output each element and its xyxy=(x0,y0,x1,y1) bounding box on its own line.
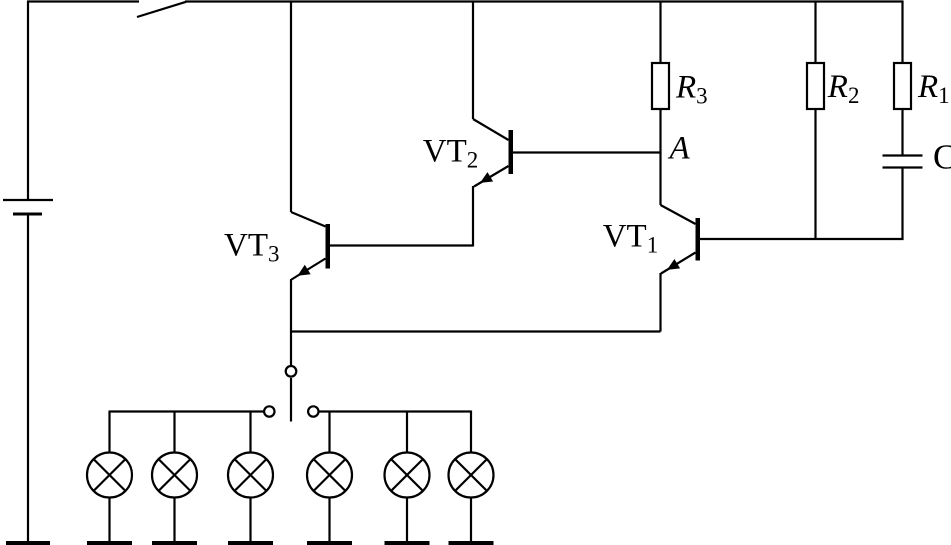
svg-text:A: A xyxy=(668,131,691,167)
lamp EL4 xyxy=(307,411,352,545)
lamp EL6 xyxy=(449,411,494,545)
transistor Q VT2 base bar xyxy=(509,130,514,174)
wire left lamp bus xyxy=(110,410,264,412)
wire VT2 collector vertical xyxy=(472,1,474,119)
wire VT1 emitter vertical xyxy=(659,273,661,332)
battery GB long plate xyxy=(3,199,53,201)
capacitor C bottom plate xyxy=(883,166,923,168)
wire VT2 emitter diagonal xyxy=(474,166,509,187)
wire top left segment xyxy=(27,0,139,2)
wire VT3 collector diagonal xyxy=(291,212,326,227)
wire VT3 base lead xyxy=(330,244,473,246)
wire left vertical upper xyxy=(27,1,29,200)
wire VT3 emitter diagonal xyxy=(292,259,326,280)
switch S2 left contact xyxy=(264,406,274,416)
arrow VT1 emitter xyxy=(667,259,680,270)
wire capacitor bottom down to base line xyxy=(901,168,903,241)
resistor R2 body xyxy=(807,63,824,109)
transistor Q VT3 base bar xyxy=(326,224,331,269)
resistor R1 body xyxy=(894,63,911,109)
wire VT2 base lead to node A xyxy=(513,151,661,153)
svg-text:VT1: VT1 xyxy=(603,219,659,258)
wire VT3 collector vertical xyxy=(290,1,292,212)
wire R2 branch top xyxy=(814,1,816,63)
svg-text:C: C xyxy=(933,138,951,177)
svg-text:VT3: VT3 xyxy=(224,228,280,267)
wire R1 branch top xyxy=(901,1,903,63)
lamp EL3 xyxy=(228,411,273,545)
switch S2 pole contact xyxy=(286,366,297,377)
transistor Q VT1 base bar xyxy=(696,218,701,261)
svg-text:R3: R3 xyxy=(675,70,708,109)
svg-text:R2: R2 xyxy=(827,69,860,108)
wire VT1 collector diagonal xyxy=(661,205,696,224)
svg-text:VT2: VT2 xyxy=(423,134,479,173)
wire VT1 emitter diagonal xyxy=(661,253,696,274)
wire VT2 collector diagonal xyxy=(473,119,509,140)
wire right lamp bus xyxy=(320,410,472,412)
svg-text:R1: R1 xyxy=(917,69,950,108)
wire top right segment xyxy=(185,0,904,2)
capacitor C top plate xyxy=(883,154,923,156)
lamp EL5 xyxy=(385,411,430,545)
arrow VT3 emitter xyxy=(298,265,311,276)
switch S2 blade xyxy=(290,378,292,422)
wire VT3 emitter vertical xyxy=(290,279,292,366)
wire R3 branch top xyxy=(659,1,661,63)
battery GB short plate xyxy=(13,213,42,216)
resistor R3 body xyxy=(652,63,669,109)
wire emitters joining horizontal xyxy=(291,330,661,332)
wire R1 bottom to capacitor xyxy=(901,109,903,156)
switch S2 right contact xyxy=(308,406,318,416)
wire VT2 emitter vertical xyxy=(472,186,474,247)
lamp EL2 xyxy=(152,411,197,545)
ground under battery xyxy=(6,541,50,545)
wire VT1 base lead xyxy=(700,238,904,240)
wire R3 bottom to VT1 collector xyxy=(659,109,661,205)
wire R2 bottom xyxy=(814,109,816,239)
lamp EL1 xyxy=(87,411,132,545)
arrow VT2 emitter xyxy=(480,172,493,183)
wire left vertical lower xyxy=(27,214,29,541)
switch S1 blade xyxy=(137,2,186,17)
